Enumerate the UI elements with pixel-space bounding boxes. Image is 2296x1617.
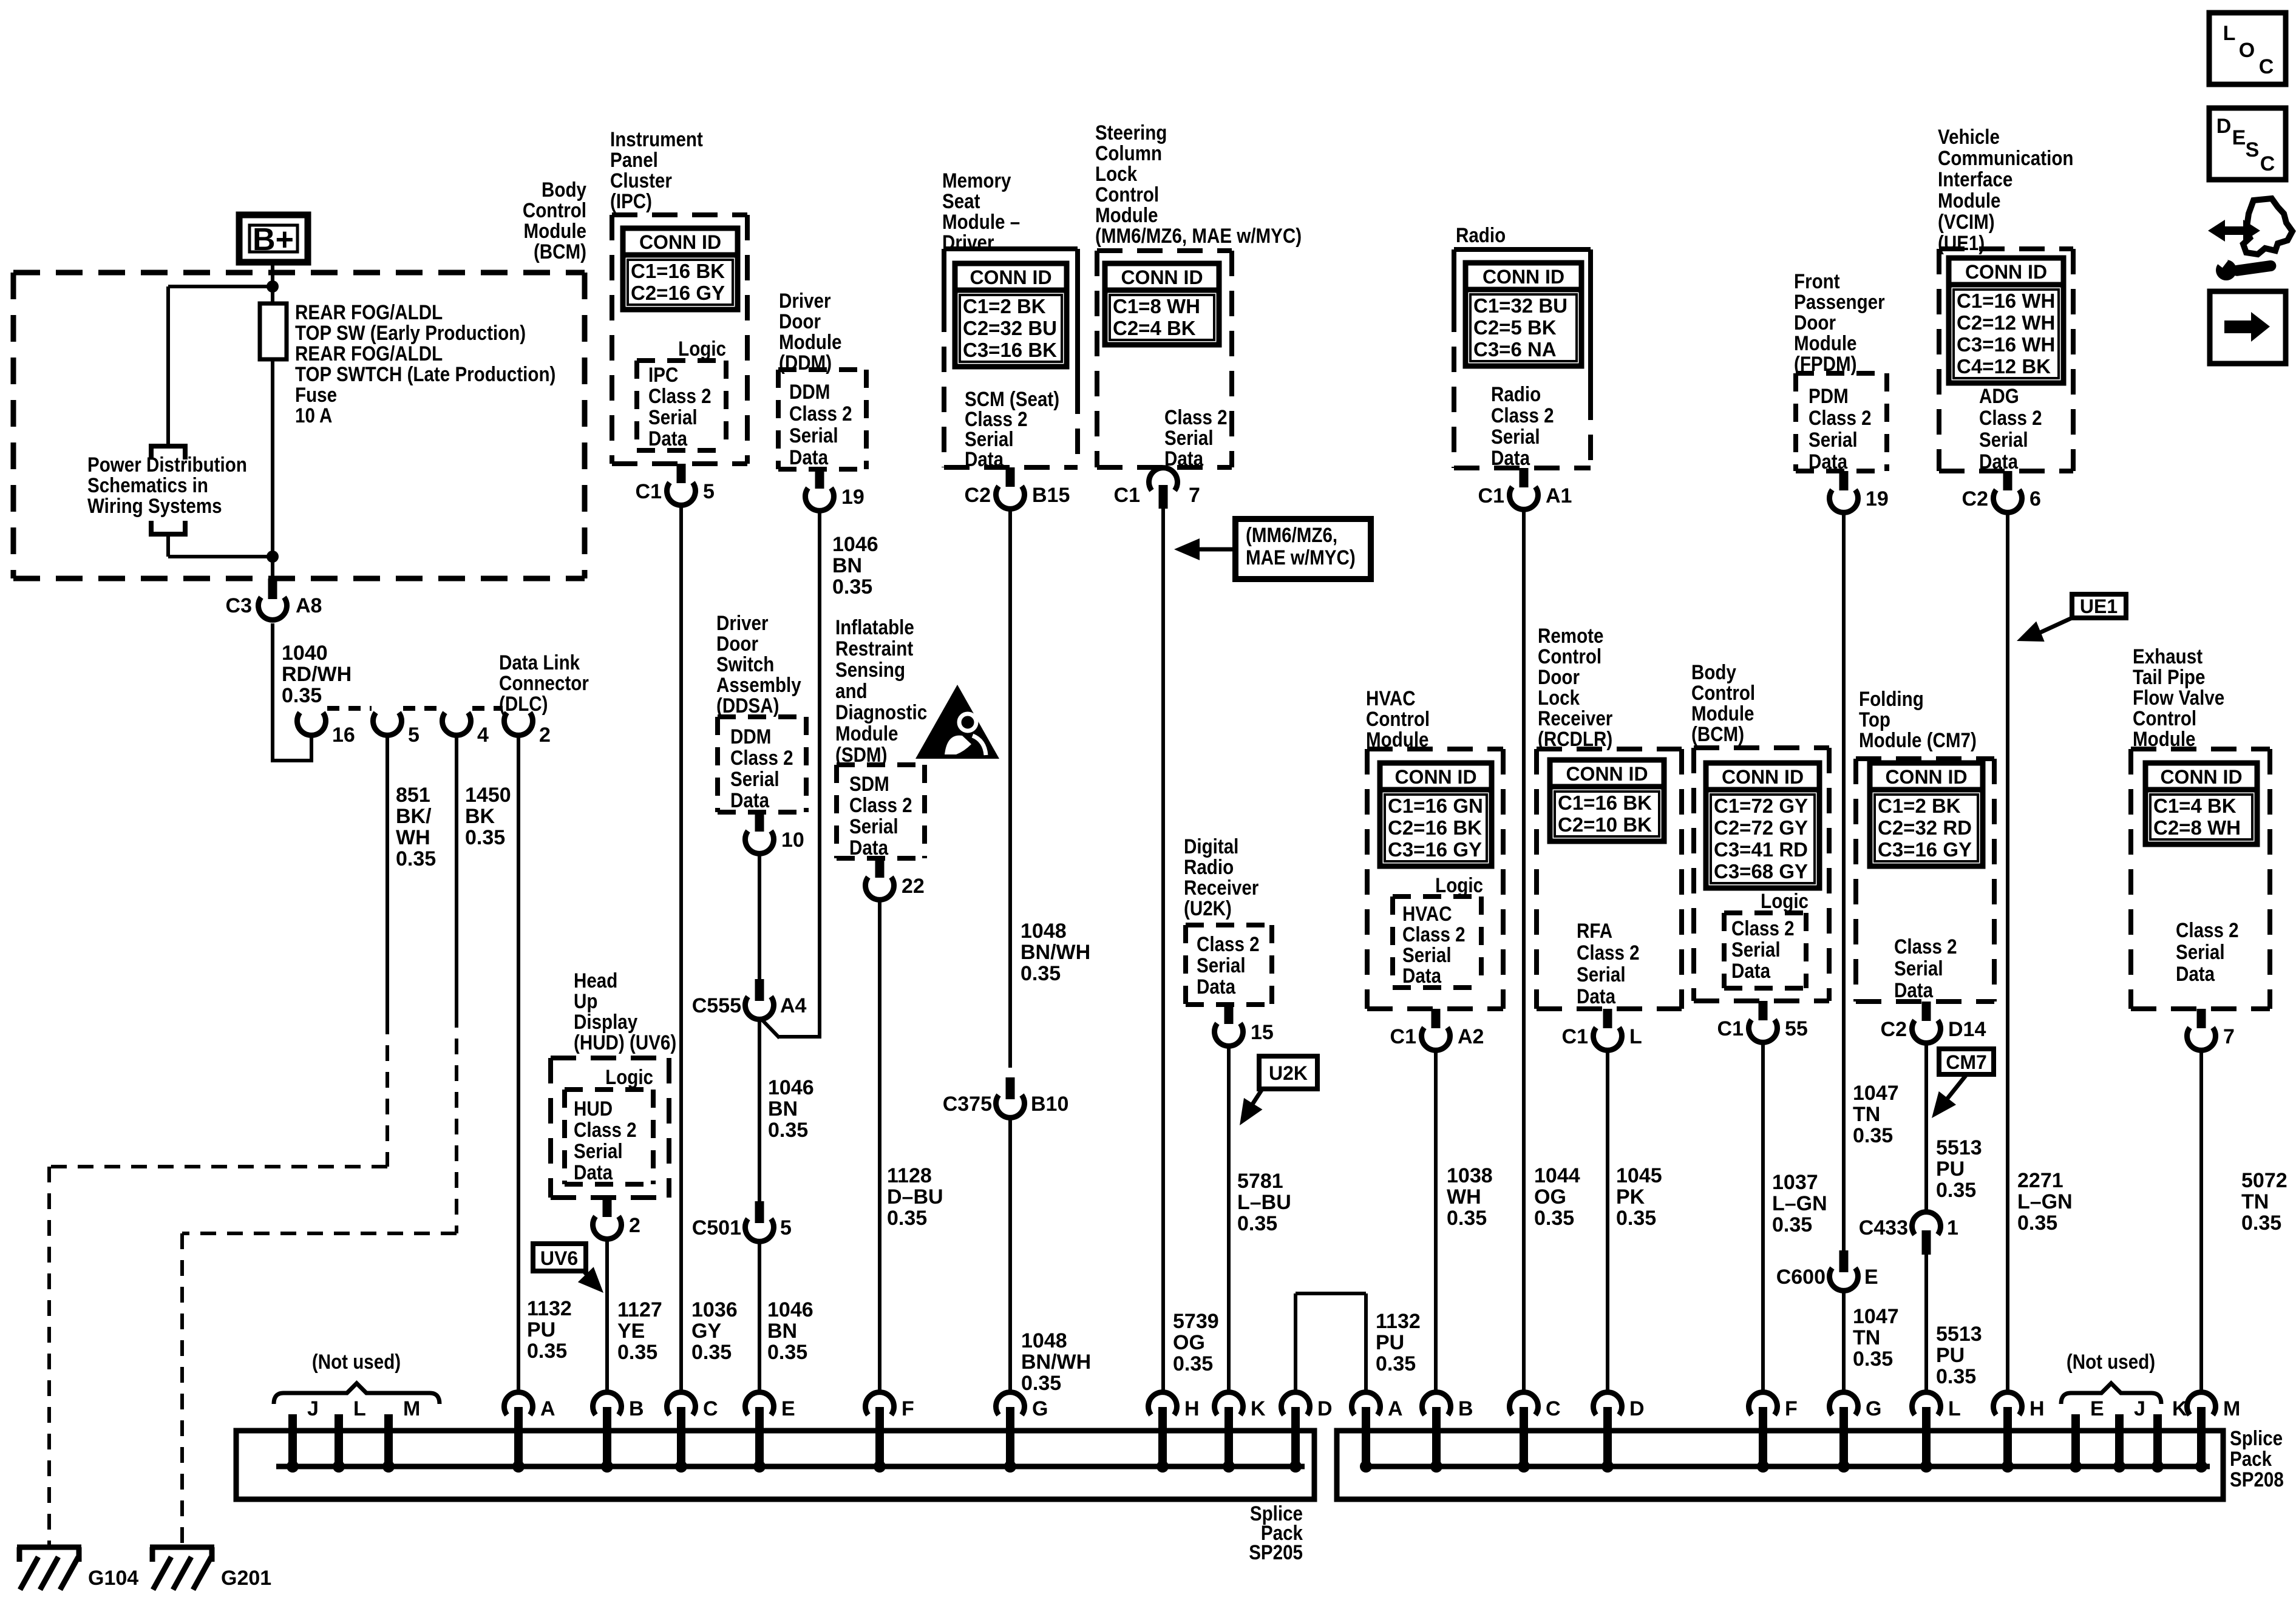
svg-text:MAE w/MYC): MAE w/MYC) (1246, 546, 1356, 569)
svg-text:Serial: Serial (2176, 940, 2225, 963)
svg-text:L–GN: L–GN (1772, 1192, 1827, 1215)
svg-text:Data Link: Data Link (499, 651, 580, 674)
svg-text:B: B (629, 1397, 644, 1420)
svg-text:0.35: 0.35 (282, 684, 322, 707)
svg-text:Flow Valve: Flow Valve (2133, 686, 2224, 709)
svg-text:(MM6/MZ6,: (MM6/MZ6, (1246, 523, 1337, 546)
svg-text:Control: Control (2133, 707, 2196, 730)
svg-text:H: H (1184, 1397, 1200, 1420)
svg-text:1132: 1132 (527, 1297, 572, 1320)
svg-text:Column: Column (1095, 141, 1162, 164)
svg-text:UV6: UV6 (540, 1247, 578, 1269)
svg-text:(HUD) (UV6): (HUD) (UV6) (574, 1031, 676, 1054)
svg-text:UE1: UE1 (2080, 595, 2118, 617)
svg-text:C433: C433 (1859, 1216, 1908, 1239)
svg-text:0.35: 0.35 (1936, 1365, 1976, 1388)
svg-text:Serial: Serial (1164, 426, 1214, 449)
svg-text:0.35: 0.35 (1936, 1179, 1976, 1202)
svg-text:C375: C375 (943, 1093, 992, 1116)
svg-text:Seat: Seat (942, 189, 980, 212)
svg-text:BN: BN (832, 554, 862, 577)
svg-text:E: E (781, 1397, 795, 1420)
svg-text:S: S (2246, 138, 2260, 161)
svg-text:0.35: 0.35 (1853, 1347, 1893, 1371)
svg-text:OG: OG (1534, 1185, 1566, 1209)
svg-text:Exhaust: Exhaust (2133, 645, 2203, 668)
svg-text:0.35: 0.35 (1376, 1352, 1416, 1375)
svg-text:0.35: 0.35 (2017, 1212, 2057, 1235)
svg-text:Module: Module (524, 219, 586, 242)
svg-text:Control: Control (1691, 681, 1755, 704)
svg-text:Module (CM7): Module (CM7) (1859, 728, 1977, 751)
svg-text:J: J (307, 1397, 319, 1420)
svg-text:SP205: SP205 (1249, 1541, 1303, 1564)
svg-text:C2: C2 (1881, 1018, 1907, 1041)
svg-text:Class 2: Class 2 (789, 402, 852, 425)
svg-text:851: 851 (396, 784, 430, 807)
svg-text:Body: Body (542, 178, 586, 201)
svg-text:5: 5 (780, 1216, 792, 1239)
svg-text:1040: 1040 (282, 642, 328, 665)
svg-text:SDM: SDM (849, 772, 889, 795)
svg-text:E: E (2090, 1397, 2104, 1420)
svg-text:REAR FOG/ALDL: REAR FOG/ALDL (295, 300, 443, 324)
svg-text:Schematics in: Schematics in (87, 473, 208, 497)
svg-text:C2: C2 (965, 484, 991, 507)
svg-text:Door: Door (1538, 665, 1580, 688)
svg-text:Class 2: Class 2 (1577, 941, 1640, 964)
svg-text:Class 2: Class 2 (574, 1118, 637, 1141)
svg-text:0.35: 0.35 (2241, 1212, 2281, 1235)
svg-text:Data: Data (849, 836, 888, 859)
svg-text:A: A (540, 1397, 555, 1420)
svg-text:0.35: 0.35 (767, 1341, 807, 1364)
svg-text:Receiver: Receiver (1538, 707, 1612, 730)
svg-text:C: C (703, 1397, 718, 1420)
svg-text:(VCIM): (VCIM) (1938, 210, 1995, 233)
svg-text:1450: 1450 (465, 784, 511, 807)
svg-text:H: H (2029, 1397, 2045, 1420)
svg-text:C1=2 BK: C1=2 BK (963, 295, 1046, 317)
svg-text:Data: Data (2176, 962, 2215, 985)
svg-text:1047: 1047 (1853, 1305, 1899, 1328)
svg-text:BK: BK (465, 805, 495, 828)
svg-text:7: 7 (1189, 484, 1200, 507)
svg-text:L: L (2223, 22, 2236, 45)
svg-text:(MM6/MZ6, MAE w/MYC): (MM6/MZ6, MAE w/MYC) (1095, 224, 1302, 247)
svg-text:A4: A4 (780, 994, 807, 1017)
svg-text:Driver: Driver (716, 611, 768, 634)
svg-text:REAR FOG/ALDL: REAR FOG/ALDL (295, 342, 443, 365)
svg-text:Wiring Systems: Wiring Systems (87, 494, 222, 517)
svg-text:6: 6 (2029, 487, 2041, 510)
svg-text:7: 7 (2223, 1025, 2235, 1048)
svg-text:C2=4 BK: C2=4 BK (1113, 317, 1196, 339)
svg-text:Instrument: Instrument (610, 127, 703, 151)
svg-text:C2=72 GY: C2=72 GY (1714, 816, 1808, 839)
svg-text:C2=5 BK: C2=5 BK (1473, 316, 1557, 339)
svg-text:Class 2: Class 2 (1894, 935, 1957, 958)
svg-text:Communication: Communication (1938, 146, 2073, 169)
svg-text:Sensing: Sensing (835, 658, 905, 681)
svg-text:C1=16 GN: C1=16 GN (1388, 795, 1483, 817)
svg-text:0.35: 0.35 (887, 1207, 927, 1230)
svg-text:L: L (1948, 1397, 1961, 1420)
svg-text:E: E (1864, 1266, 1878, 1289)
svg-text:C2=16 GY: C2=16 GY (631, 282, 725, 304)
svg-text:CONN ID: CONN ID (970, 266, 1051, 288)
svg-text:Data: Data (1197, 975, 1235, 998)
svg-text:Class 2: Class 2 (1979, 406, 2042, 429)
svg-text:PK: PK (1616, 1185, 1645, 1209)
svg-text:15: 15 (1251, 1021, 1274, 1044)
svg-text:0.35: 0.35 (1021, 962, 1061, 985)
svg-text:C2=8 WH: C2=8 WH (2153, 816, 2241, 839)
svg-text:1046: 1046 (832, 533, 878, 556)
svg-text:BN/WH: BN/WH (1021, 1351, 1091, 1374)
svg-text:TOP SW (Early Production): TOP SW (Early Production) (295, 321, 526, 344)
svg-text:K: K (1251, 1397, 1266, 1420)
svg-text:Digital: Digital (1184, 835, 1238, 858)
svg-text:4: 4 (477, 724, 489, 747)
svg-text:C2=16 BK: C2=16 BK (1388, 816, 1482, 839)
svg-text:Door: Door (779, 310, 821, 333)
svg-text:Radio: Radio (1184, 855, 1234, 878)
svg-text:(U2K): (U2K) (1184, 897, 1232, 920)
svg-text:TN: TN (1853, 1326, 1880, 1349)
svg-text:Module: Module (1938, 189, 2000, 212)
svg-text:(Not used): (Not used) (312, 1350, 401, 1373)
svg-text:Restraint: Restraint (835, 637, 914, 660)
svg-text:Power Distribution: Power Distribution (87, 453, 247, 476)
svg-text:Radio: Radio (1491, 382, 1541, 405)
svg-text:F: F (902, 1397, 914, 1420)
svg-text:C1: C1 (636, 480, 662, 503)
svg-text:CONN ID: CONN ID (1121, 266, 1203, 288)
svg-text:Memory: Memory (942, 169, 1011, 192)
svg-text:DDM: DDM (789, 380, 830, 403)
svg-text:Tail Pipe: Tail Pipe (2133, 665, 2205, 688)
svg-text:Top: Top (1859, 708, 1890, 731)
svg-text:Class 2: Class 2 (1402, 923, 1466, 946)
svg-text:J: J (2134, 1397, 2145, 1420)
svg-text:5781: 5781 (1237, 1170, 1283, 1193)
svg-text:Head: Head (574, 969, 617, 992)
svg-text:M: M (2223, 1397, 2240, 1420)
svg-text:B+: B+ (253, 222, 294, 257)
svg-text:Serial: Serial (789, 424, 838, 447)
svg-text:TOP SWTCH (Late Production): TOP SWTCH (Late Production) (295, 362, 555, 385)
svg-text:C1=72 GY: C1=72 GY (1714, 795, 1808, 817)
svg-text:Logic: Logic (605, 1065, 653, 1088)
svg-text:C3=16 GY: C3=16 GY (1388, 838, 1482, 861)
svg-text:SP208: SP208 (2230, 1468, 2284, 1491)
svg-text:0.35: 0.35 (617, 1341, 657, 1364)
svg-text:Data: Data (1577, 985, 1615, 1008)
svg-text:Data: Data (965, 447, 1004, 470)
svg-text:C3: C3 (226, 594, 252, 617)
svg-text:1127: 1127 (617, 1298, 662, 1321)
svg-text:BN: BN (767, 1320, 797, 1343)
svg-text:Logic: Logic (678, 337, 726, 360)
svg-text:Connector: Connector (499, 671, 589, 694)
svg-text:1036: 1036 (691, 1298, 738, 1321)
svg-text:CONN ID: CONN ID (1483, 266, 1564, 288)
svg-text:CONN ID: CONN ID (1885, 766, 1967, 788)
svg-text:A1: A1 (1546, 484, 1572, 507)
svg-text:RD/WH: RD/WH (282, 663, 352, 686)
svg-text:B10: B10 (1031, 1093, 1068, 1116)
svg-text:(DDSA): (DDSA) (716, 694, 779, 717)
svg-text:PU: PU (1936, 1344, 1965, 1367)
svg-text:Data: Data (730, 788, 769, 812)
svg-text:Lock: Lock (1095, 162, 1137, 185)
svg-text:D14: D14 (1948, 1018, 1986, 1041)
svg-text:Assembly: Assembly (716, 673, 801, 696)
svg-text:C2=12 WH: C2=12 WH (1957, 311, 2055, 334)
svg-text:C: C (1546, 1397, 1561, 1420)
svg-text:OG: OG (1173, 1331, 1205, 1354)
svg-text:Splice: Splice (2230, 1426, 2283, 1449)
svg-text:C1=8 WH: C1=8 WH (1113, 295, 1200, 317)
svg-text:C2: C2 (1962, 487, 1988, 510)
svg-text:0.35: 0.35 (1237, 1212, 1277, 1235)
svg-text:Serial: Serial (1731, 938, 1781, 961)
svg-text:C1: C1 (1562, 1025, 1588, 1048)
svg-text:Class 2: Class 2 (1491, 404, 1554, 427)
svg-text:Front: Front (1794, 269, 1840, 293)
svg-text:1048: 1048 (1021, 1329, 1067, 1352)
svg-text:10 A: 10 A (295, 404, 332, 427)
svg-text:55: 55 (1785, 1017, 1808, 1040)
svg-text:Control: Control (523, 198, 586, 222)
svg-text:0.35: 0.35 (465, 826, 505, 849)
svg-text:1045: 1045 (1616, 1164, 1662, 1187)
svg-text:C1: C1 (1478, 484, 1504, 507)
svg-text:1038: 1038 (1447, 1164, 1493, 1187)
svg-text:16: 16 (332, 724, 355, 747)
svg-text:1044: 1044 (1534, 1164, 1580, 1187)
svg-text:1046: 1046 (768, 1076, 814, 1099)
svg-text:YE: YE (617, 1320, 645, 1343)
svg-text:Data: Data (574, 1161, 613, 1184)
svg-text:Data: Data (1491, 446, 1530, 469)
svg-text:Pack: Pack (2230, 1447, 2272, 1470)
svg-text:B: B (1458, 1397, 1473, 1420)
svg-text:Body: Body (1691, 660, 1736, 683)
svg-text:0.35: 0.35 (832, 575, 872, 598)
svg-text:CONN ID: CONN ID (1394, 766, 1476, 788)
svg-text:Module: Module (1794, 331, 1856, 354)
svg-text:L–GN: L–GN (2017, 1190, 2073, 1213)
svg-text:Serial: Serial (1577, 963, 1626, 986)
svg-text:Radio: Radio (1456, 223, 1506, 246)
svg-text:M: M (403, 1397, 420, 1420)
svg-text:Logic: Logic (1761, 889, 1809, 912)
svg-text:Class 2: Class 2 (648, 384, 712, 407)
svg-text:C501: C501 (692, 1216, 741, 1239)
svg-text:(DLC): (DLC) (499, 692, 548, 715)
svg-text:Steering: Steering (1095, 121, 1167, 144)
svg-text:5: 5 (703, 480, 715, 503)
svg-text:Data: Data (1402, 964, 1441, 987)
svg-text:1046: 1046 (767, 1298, 813, 1321)
svg-text:Up: Up (574, 989, 597, 1012)
svg-text:C3=68 GY: C3=68 GY (1714, 860, 1808, 883)
svg-text:A2: A2 (1458, 1025, 1484, 1048)
svg-text:BN: BN (768, 1097, 798, 1120)
svg-text:D: D (1317, 1397, 1333, 1420)
svg-text:Display: Display (574, 1010, 637, 1033)
svg-text:0.35: 0.35 (527, 1340, 567, 1363)
svg-text:Vehicle: Vehicle (1938, 125, 2000, 148)
svg-text:Logic: Logic (1435, 873, 1483, 897)
svg-text:Class 2: Class 2 (1164, 405, 1228, 429)
svg-text:C3=16 BK: C3=16 BK (963, 339, 1057, 361)
svg-text:ADG: ADG (1979, 384, 2019, 407)
svg-text:0.35: 0.35 (1616, 1207, 1656, 1230)
svg-text:Remote: Remote (1538, 624, 1603, 647)
svg-text:CONN ID: CONN ID (1965, 261, 2047, 283)
svg-text:G104: G104 (88, 1567, 138, 1590)
svg-text:E: E (2232, 126, 2246, 149)
svg-text:C1=2 BK: C1=2 BK (1878, 795, 1961, 817)
svg-text:0.35: 0.35 (1173, 1352, 1213, 1375)
svg-text:C: C (2260, 152, 2275, 175)
svg-text:C2=32 RD: C2=32 RD (1878, 816, 1972, 839)
svg-text:DDM: DDM (730, 725, 771, 748)
svg-text:G201: G201 (221, 1567, 271, 1590)
svg-text:0.35: 0.35 (1853, 1124, 1893, 1147)
svg-text:Serial: Serial (730, 767, 779, 790)
svg-text:Driver: Driver (779, 289, 830, 312)
svg-text:0.35: 0.35 (396, 847, 436, 870)
svg-text:HVAC: HVAC (1402, 902, 1452, 925)
svg-text:CM7: CM7 (1946, 1051, 1987, 1073)
svg-text:1037: 1037 (1772, 1171, 1818, 1194)
svg-text:PU: PU (1936, 1158, 1965, 1181)
svg-text:D–BU: D–BU (887, 1185, 943, 1209)
svg-text:PU: PU (1376, 1331, 1404, 1354)
svg-text:(IPC): (IPC) (610, 189, 652, 212)
svg-text:C4=12 BK: C4=12 BK (1957, 355, 2051, 378)
svg-text:Class 2: Class 2 (1197, 932, 1260, 955)
svg-text:C1: C1 (1717, 1017, 1744, 1040)
svg-text:(Not used): (Not used) (2067, 1350, 2155, 1373)
svg-text:Serial: Serial (1809, 428, 1858, 451)
svg-text:Serial: Serial (1491, 425, 1540, 448)
svg-text:C3=16 GY: C3=16 GY (1878, 838, 1972, 861)
svg-text:D: D (2216, 115, 2232, 138)
svg-text:10: 10 (781, 829, 804, 852)
svg-text:Serial: Serial (849, 815, 898, 838)
svg-text:U2K: U2K (1269, 1062, 1308, 1084)
svg-text:Inflatable: Inflatable (835, 615, 914, 639)
svg-text:5739: 5739 (1173, 1310, 1219, 1333)
svg-text:Control: Control (1366, 707, 1430, 730)
svg-text:0.35: 0.35 (1021, 1372, 1061, 1395)
svg-text:Class 2: Class 2 (1731, 917, 1795, 940)
svg-text:Module: Module (835, 722, 898, 745)
svg-text:Class 2: Class 2 (1809, 406, 1872, 429)
svg-text:Module: Module (1691, 702, 1754, 725)
svg-text:22: 22 (902, 875, 925, 898)
svg-text:L–BU: L–BU (1237, 1191, 1291, 1214)
svg-text:and: and (835, 679, 868, 702)
svg-text:C1=16 BK: C1=16 BK (631, 260, 725, 282)
svg-text:C1=16 WH: C1=16 WH (1957, 290, 2055, 312)
svg-text:0.35: 0.35 (691, 1341, 732, 1364)
svg-text:C: C (2259, 55, 2274, 78)
svg-text:TN: TN (2241, 1190, 2269, 1213)
svg-text:Data: Data (1809, 450, 1847, 473)
svg-text:C3=16 WH: C3=16 WH (1957, 333, 2055, 356)
svg-text:C1=4 BK: C1=4 BK (2153, 795, 2237, 817)
svg-text:1128: 1128 (887, 1164, 932, 1187)
svg-text:G: G (1866, 1397, 1881, 1420)
svg-text:0.35: 0.35 (768, 1119, 808, 1142)
svg-text:Serial: Serial (1402, 943, 1452, 966)
svg-text:Fuse: Fuse (295, 383, 337, 406)
svg-text:L: L (1629, 1025, 1642, 1048)
svg-text:5072: 5072 (2241, 1169, 2288, 1192)
svg-text:Class 2: Class 2 (2176, 918, 2239, 941)
svg-text:C2=10 BK: C2=10 BK (1558, 813, 1652, 836)
svg-text:G: G (1032, 1397, 1048, 1420)
svg-text:C3=6 NA: C3=6 NA (1473, 338, 1557, 361)
svg-text:Serial: Serial (574, 1139, 623, 1162)
svg-text:BN/WH: BN/WH (1021, 941, 1090, 964)
svg-text:C600: C600 (1776, 1266, 1826, 1289)
svg-text:C3=41 RD: C3=41 RD (1714, 838, 1808, 861)
svg-text:Serial: Serial (1894, 957, 1943, 980)
svg-text:Interface: Interface (1938, 168, 2012, 191)
svg-text:C1=32 BU: C1=32 BU (1473, 294, 1567, 317)
svg-text:19: 19 (841, 486, 864, 509)
svg-text:IPC: IPC (648, 363, 678, 386)
svg-text:CONN ID: CONN ID (1566, 763, 1648, 785)
svg-text:Switch: Switch (716, 653, 774, 676)
svg-text:1047: 1047 (1853, 1082, 1899, 1105)
svg-text:Data: Data (1731, 959, 1770, 982)
svg-text:5: 5 (408, 724, 419, 747)
svg-text:A8: A8 (296, 594, 322, 617)
svg-text:HUD: HUD (574, 1097, 613, 1120)
svg-text:2: 2 (629, 1214, 640, 1237)
svg-text:CONN ID: CONN ID (639, 231, 721, 253)
svg-text:A: A (1388, 1397, 1403, 1420)
svg-text:C1=16 BK: C1=16 BK (1558, 792, 1652, 814)
svg-text:1048: 1048 (1021, 920, 1067, 943)
svg-text:Passenger: Passenger (1794, 290, 1885, 313)
svg-text:2271: 2271 (2017, 1169, 2063, 1192)
svg-text:Lock: Lock (1538, 686, 1580, 709)
svg-text:PDM: PDM (1809, 384, 1849, 407)
svg-text:1132: 1132 (1376, 1310, 1421, 1333)
svg-text:C2=32 BU: C2=32 BU (963, 317, 1057, 339)
svg-text:Control: Control (1095, 183, 1159, 206)
svg-text:0.35: 0.35 (1447, 1207, 1487, 1230)
svg-text:2: 2 (539, 724, 551, 747)
svg-text:Serial: Serial (1979, 428, 2028, 451)
svg-text:F: F (1785, 1397, 1798, 1420)
svg-text:HVAC: HVAC (1366, 686, 1416, 710)
svg-text:C1: C1 (1390, 1025, 1416, 1048)
svg-text:RFA: RFA (1577, 919, 1612, 942)
svg-text:5513: 5513 (1936, 1323, 1982, 1346)
svg-text:C555: C555 (692, 994, 741, 1017)
svg-text:Diagnostic: Diagnostic (835, 700, 927, 724)
